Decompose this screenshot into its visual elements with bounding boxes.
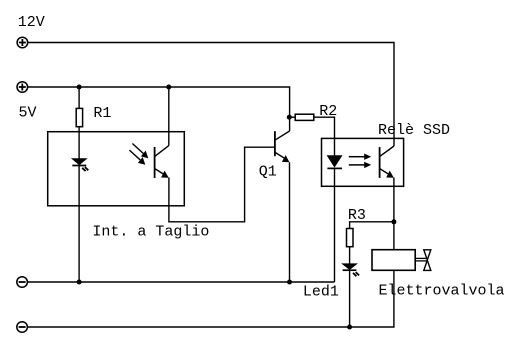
wire R1 top: [78, 87, 80, 108]
wire R2 to SSD LED: [314, 117, 335, 156]
diode SSD LED: [327, 156, 342, 169]
wire ground rail 5V: [27, 281, 334, 283]
wire SSD light arrow 2: [349, 162, 371, 168]
svg-text:Relè SSD: Relè SSD: [378, 122, 450, 139]
valve stem: [416, 257, 429, 259]
valve bowtie: [424, 250, 431, 260]
wire R3 to Led1: [349, 247, 351, 264]
wire junction to R3: [350, 222, 394, 229]
wire opto collector up to 5V rail: [168, 87, 170, 146]
terminal +12V: [17, 37, 28, 48]
terminal -12V return: [17, 322, 28, 333]
node Q1 emitter on rail: [287, 280, 292, 285]
terminal +5V: [17, 82, 28, 93]
wire opto LED cathode down: [78, 166, 80, 283]
wire junction to R2: [289, 116, 295, 118]
wire SSD emitter down to valve: [393, 178, 395, 251]
wire opto emitter to Q1 base: [169, 147, 274, 222]
wire ground rail 12V: [27, 270, 394, 327]
diode opto LED: [72, 159, 88, 171]
resistor R3: [347, 229, 354, 247]
diode Led1: [343, 264, 360, 276]
node Led1 on rail: [347, 325, 352, 330]
svg-text:Q1: Q1: [259, 164, 277, 181]
node opto collector junction: [166, 85, 171, 90]
relay coil Elettrovalvola: [372, 250, 415, 271]
node R3 junction: [391, 219, 396, 224]
transistor SSD phototransistor: [380, 146, 394, 178]
resistor R2: [295, 114, 314, 120]
wire Q1 collector up: [289, 117, 291, 131]
terminal -5V return: [17, 277, 28, 288]
svg-text:R3: R3: [348, 207, 366, 224]
op-amp SSD relay box U2: [322, 138, 404, 186]
op-amp optocoupler box U1: [48, 132, 185, 206]
svg-text:Elettrovalvola: Elettrovalvola: [379, 283, 505, 300]
resistor R1: [76, 108, 82, 126]
transistor Q1: [275, 131, 290, 162]
wire 5V rail: [28, 87, 290, 117]
wire Q1 emitter down: [289, 162, 291, 282]
wire SSD LED cathode down: [334, 168, 336, 282]
wire Led1 cathode down: [349, 270, 351, 327]
node opto cathode on rail: [77, 280, 82, 285]
svg-text:R1: R1: [93, 105, 111, 122]
svg-text:Int. a Taglio: Int. a Taglio: [92, 223, 209, 240]
svg-text:5V: 5V: [19, 104, 37, 121]
wire R1 bottom to opto LED: [78, 127, 80, 159]
svg-text:Led1: Led1: [303, 283, 339, 300]
wire SSD light arrow 1: [349, 154, 371, 160]
node R1 top junction: [77, 85, 82, 90]
svg-text:12V: 12V: [18, 14, 45, 31]
node Q1 collector / R2 junction: [287, 115, 292, 120]
transistor opto phototransistor: [129, 144, 168, 179]
wire 12V rail: [28, 43, 394, 147]
